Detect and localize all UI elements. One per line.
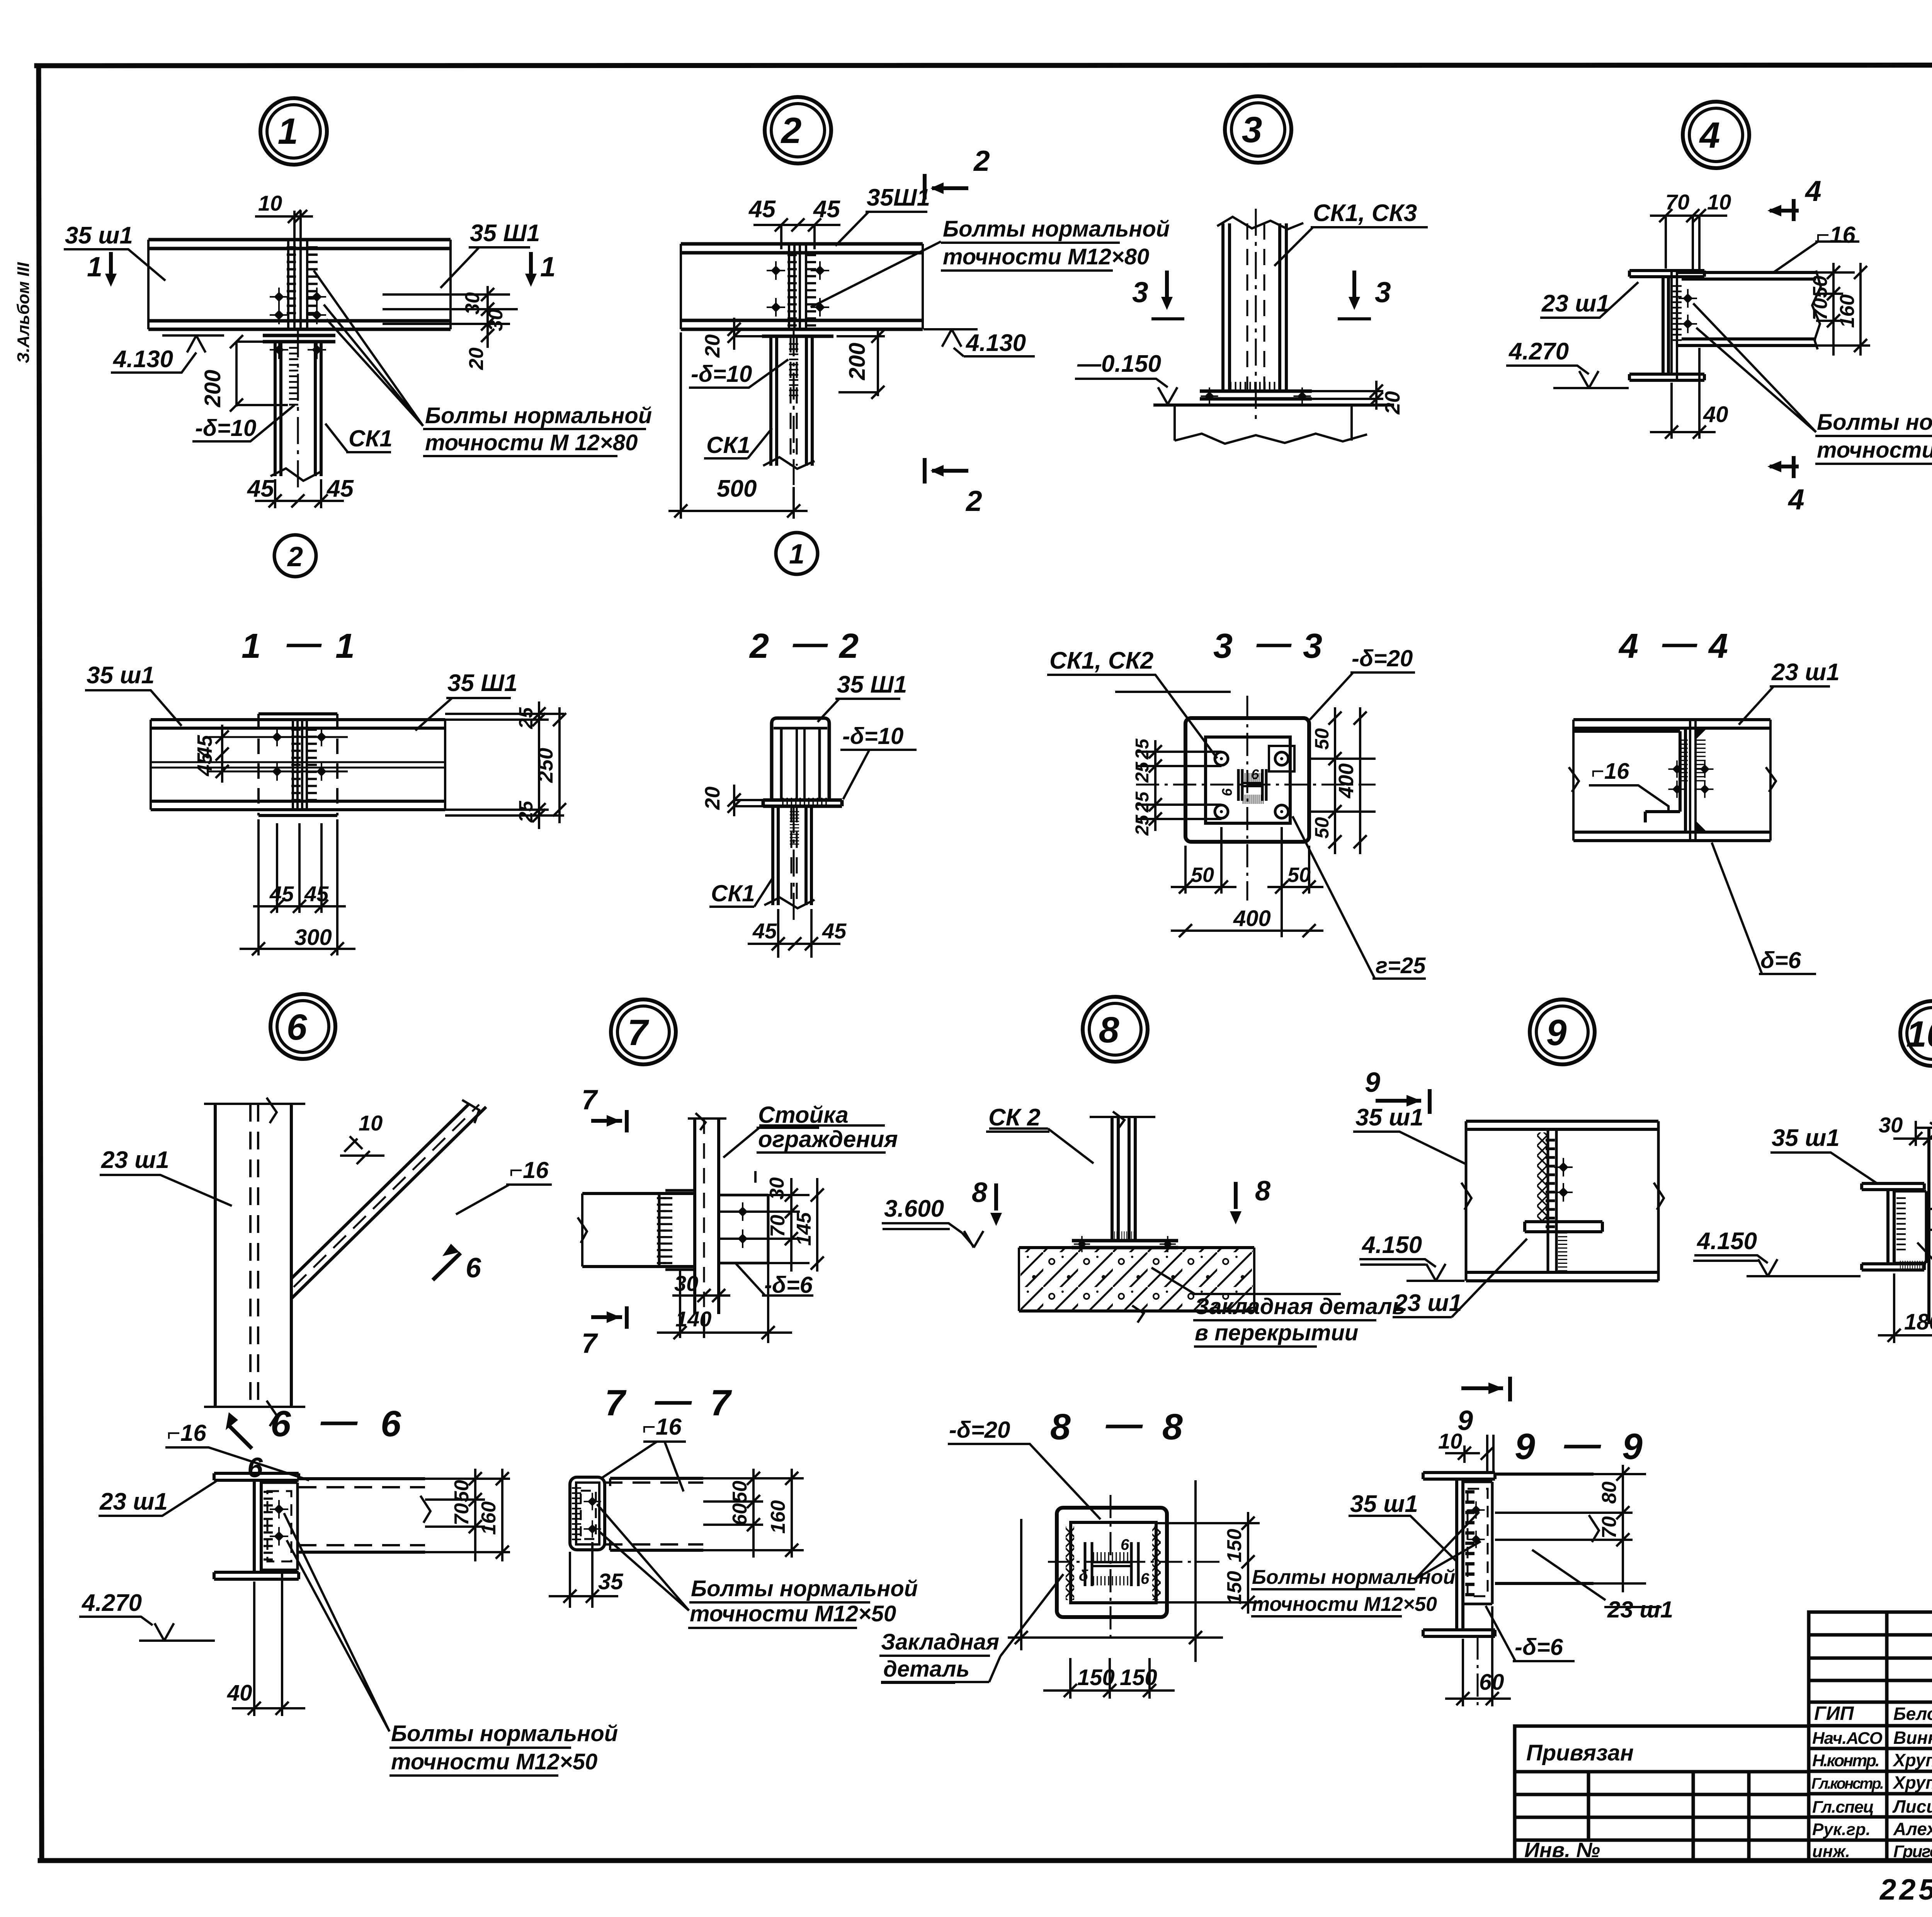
svg-text:6: 6 [1219,788,1235,796]
svg-text:инж.: инж. [1812,1842,1850,1861]
leader C16 top [165,1447,309,1480]
svg-text:ограждения: ограждения [758,1126,898,1152]
svg-text:Белоус: Белоус [1893,1704,1932,1724]
base plate [1200,391,1312,399]
brace end break [462,1100,479,1123]
svg-text:80: 80 [1598,1481,1621,1504]
leader 23sh1 [100,1175,232,1206]
privyazan table [1515,1726,1809,1861]
column bottom break [763,457,815,469]
svg-text:СК1: СК1 [706,432,750,458]
svg-text:6: 6 [1251,766,1259,782]
svg-text:Привязан: Привязан [1526,1740,1634,1765]
title block: signature table outline [1809,1612,1932,1861]
leader -b=10 [192,405,294,441]
right dims 150/150 [1156,1512,1260,1614]
section marks 2 [923,174,927,199]
svg-text:Лисичкин': Лисичкин' [1892,1796,1932,1817]
level 4.150 [1359,1259,1464,1281]
section mark 7 bottom [591,1315,622,1319]
signature table rows [1809,1635,1932,1840]
weld x columns [1066,1527,1074,1600]
weld combs splice [787,255,797,325]
label underlines [389,243,1932,1776]
svg-text:4: 4 [1804,175,1821,207]
detail 10 bubble [1900,1001,1932,1066]
underline zakladnaya detail 8 [1193,1320,1376,1347]
splice plate verticals [288,240,307,329]
svg-text:25: 25 [515,707,537,729]
slab hatch [1020,1249,1253,1309]
svg-text:г=25: г=25 [1376,953,1426,978]
leaders bolts [1693,303,1816,432]
bolt gauge lines [209,737,348,771]
leader 35Sh1 [835,212,927,246]
svg-text:ГИП: ГИП [1814,1702,1854,1724]
column SK1 shafts [275,342,321,476]
leader 23sh1 [1739,686,1830,725]
leader 35sh1 left [64,249,165,281]
leader stoyka [723,1125,885,1158]
svg-text:Стойка: Стойка [758,1102,849,1128]
right dims 80/70 [1495,1465,1646,1592]
svg-text:45: 45 [748,196,776,223]
svg-text:10: 10 [1707,190,1731,214]
underline bolts label node4 [1815,436,1932,464]
top dims 70/10 [1650,216,1727,271]
H anchors: flanges [1085,1542,1138,1586]
svg-text:-δ=6: -δ=6 [764,1272,813,1298]
svg-text:20: 20 [701,334,724,358]
underline bolts label 7-7 [688,1602,870,1628]
svg-text:400: 400 [1335,763,1358,798]
bottom ext line [1008,1480,1223,1662]
svg-text:3: 3 [1242,109,1262,150]
leader C16 [601,1442,686,1491]
leader -b=6 [1486,1606,1575,1661]
section mark 3 left [1165,271,1169,297]
svg-text:20: 20 [465,347,488,370]
svg-text:20: 20 [1381,391,1404,415]
bolts node 2 [767,261,785,280]
svg-text:⌐16: ⌐16 [642,1414,682,1440]
svg-text:6: 6 [466,1253,481,1284]
svg-text:200: 200 [845,343,870,381]
beam bottom flange [681,320,923,329]
bottom dims [1171,827,1323,937]
leader SK1 [709,877,774,907]
svg-text:25: 25 [1132,814,1153,836]
svg-text:20: 20 [701,787,724,810]
beam 35Sh1 end view box [772,718,829,800]
svg-text:500: 500 [717,475,757,502]
I section: top flange [214,1473,299,1480]
right dims 25/250/25 [445,701,564,829]
dim 40 [232,1572,305,1716]
svg-text:Закладная: Закладная [881,1629,999,1655]
svg-text:70: 70 [1665,190,1689,214]
leaders bolts [597,1504,689,1611]
svg-text:деталь: деталь [883,1657,969,1682]
svg-text:50: 50 [451,1480,473,1502]
leader -b=6 [736,1264,813,1296]
bottom dims 150/150 [1043,1658,1175,1699]
column web [1663,277,1668,374]
gusset plate verticals [1672,271,1677,380]
svg-text:1: 1 [540,252,556,283]
svg-text:30: 30 [766,1177,788,1200]
diagonal brace C16 [291,1105,486,1299]
detail 8 bubble [1083,997,1148,1062]
svg-text:250: 250 [534,748,557,783]
svg-text:10: 10 [1906,1014,1932,1055]
svg-text:35 ш1: 35 ш1 [87,662,155,689]
svg-text:7: 7 [582,1084,598,1115]
svg-text:60: 60 [729,1503,751,1525]
embed plate outer [1057,1508,1167,1617]
svg-text:180: 180 [1904,1309,1932,1335]
bent channel box [570,1477,605,1550]
leader 35sh1 right [440,247,530,288]
svg-text:25: 25 [515,800,537,823]
centerlines [1136,784,1376,786]
svg-text:35: 35 [598,1569,623,1594]
svg-text:10: 10 [258,191,282,215]
splice stub above beam [294,211,301,240]
svg-text:160: 160 [478,1502,500,1535]
svg-text:9: 9 [1546,1012,1567,1053]
svg-text:25: 25 [1132,761,1153,783]
svg-text:Рук.гр.: Рук.гр. [1812,1820,1871,1839]
bracket channel on post [659,1190,695,1270]
leader -b=20 [948,1444,1100,1519]
svg-text:1: 1 [241,627,261,666]
splice verticals [789,244,806,329]
column top break [1217,217,1303,229]
svg-text:45: 45 [193,752,216,776]
svg-text:Болты нормальной: Болты нормальной [691,1576,918,1601]
leader SK1 [704,428,772,458]
guard post [695,1119,719,1314]
leader C16 [1589,785,1668,811]
beam right [1495,1474,1594,1583]
detail 1 lower bubble [274,535,316,577]
base plate [1072,1241,1178,1248]
svg-text:9: 9 [1515,1426,1535,1467]
dim 20 right [1312,381,1383,410]
section mark 7 top [591,1119,622,1123]
svg-text:35 Ш1: 35 Ш1 [837,671,907,698]
svg-text:2: 2 [749,627,769,666]
stamp texts [1524,1634,1932,1914]
sheet frame left [39,66,42,1861]
svg-text:4.150: 4.150 [1361,1232,1422,1258]
svg-text:8: 8 [1050,1406,1071,1447]
svg-text:25: 25 [1132,738,1153,760]
dim 40 [1650,348,1716,439]
leaders bolts from left text [1415,1512,1481,1579]
svg-text:7: 7 [710,1382,732,1423]
dim 200 right [837,329,885,396]
column axis [297,330,299,488]
leader -b=10 [689,359,788,388]
sheet frame top [37,65,1932,66]
web lines [151,762,445,768]
column 23Sh1 verticals [215,1104,291,1407]
svg-text:160: 160 [1836,295,1859,328]
svg-text:Инв. №: Инв. № [1524,1839,1600,1862]
ground line [1153,403,1394,407]
level -0.150 [1075,379,1177,404]
leader C16 [1773,242,1859,273]
svg-text:50: 50 [1311,728,1333,750]
svg-text:Хрупало: Хрупало [1892,1772,1932,1793]
column bottom flange [1629,374,1704,380]
leader zakladnaya [881,1574,1063,1682]
beam 35Sh1 top flange [148,240,451,249]
svg-text:50: 50 [1191,863,1214,887]
detail 7 bubble [611,999,676,1064]
underline levels [883,816,1932,1265]
dim 20 left [734,318,767,350]
leader 35Sh1 [818,699,900,722]
right dim chain 30/30/20 [383,286,518,348]
concrete slab [1019,1248,1254,1311]
svg-text:7: 7 [605,1382,627,1423]
svg-text:⌐16: ⌐16 [509,1157,549,1183]
dim 180 [1878,1273,1932,1343]
cap plate [763,800,842,806]
top plate inner [1206,737,1290,823]
bottom dim 45/45 [255,479,344,508]
svg-text:45: 45 [304,882,329,906]
svg-text:300: 300 [294,925,332,950]
dim 10 above [255,215,313,218]
leaders bolts [284,1513,389,1731]
column web weld comb [789,344,798,395]
leaders bolts [811,242,941,307]
svg-text:6: 6 [287,1007,308,1048]
svg-text:в перекрытии: в перекрытии [1195,1320,1358,1345]
svg-text:2: 2 [973,145,990,177]
svg-text:—: — [286,624,322,662]
svg-text:35 Ш1: 35 Ш1 [470,220,540,247]
svg-text:-δ=20: -δ=20 [1352,645,1413,671]
detail 1 bubble [260,98,327,165]
leader -b=10 [840,750,917,799]
section mark 9 top [1376,1099,1421,1103]
dim 300 [240,819,355,955]
svg-text:—: — [1662,624,1697,662]
svg-text:Нач.АСО: Нач.АСО [1812,1729,1883,1748]
svg-text:⌐16: ⌐16 [1816,222,1855,248]
channel beam going right [299,1479,425,1552]
column cap plate [263,335,335,342]
svg-text:8: 8 [1162,1406,1183,1447]
I section [1423,1473,1495,1479]
level 4.150 [1694,1255,1861,1276]
leader 23sh1 [1393,1239,1527,1317]
svg-text:4: 4 [1708,627,1728,666]
section mark 1 left [109,252,113,274]
svg-text:-δ=10: -δ=10 [691,361,752,387]
svg-text:60: 60 [1479,1670,1504,1695]
svg-text:25: 25 [1132,791,1153,813]
leader 23sh1 [99,1481,216,1516]
column 23Sh1 top flange (plan) [1629,271,1704,277]
svg-text:СК1: СК1 [711,880,755,906]
dim 20 [734,785,768,816]
svg-text:40: 40 [227,1680,252,1706]
svg-text:45: 45 [822,919,847,943]
right dims 50/70 + 160 [1816,263,1870,356]
svg-text:6: 6 [1141,1570,1150,1587]
leader -b=6 [1917,1243,1932,1298]
svg-text:Гл.констр.: Гл.констр. [1811,1775,1884,1792]
centerlines [1110,1495,1112,1639]
bottom dim 45/45 [748,909,840,958]
stub plate above [1487,1435,1493,1473]
dims right 30/70/145 [719,1171,817,1272]
svg-text:3.600: 3.600 [884,1195,944,1222]
detail 2 lower bubble [776,533,818,574]
svg-text:Винклер: Винклер [1893,1728,1932,1748]
section marks 4 [1792,199,1796,221]
bolts 1-1 [268,728,286,746]
weld comb left of splice [287,247,296,320]
svg-text:-δ=10: -δ=10 [842,723,903,749]
bracket plate right of post [719,1195,768,1263]
svg-text:—: — [1256,624,1292,662]
left rot dims 45/45 [221,725,223,783]
bolt box top right [1269,746,1294,771]
dim 10 brace [340,1136,384,1156]
underline SK2 [986,1130,1049,1133]
leader SK1,SK3 [1274,227,1428,266]
svg-text:8: 8 [1099,1010,1119,1050]
svg-text:точности М12×50: точности М12×50 [1817,438,1932,463]
svg-text:150: 150 [1077,1665,1115,1690]
svg-text:150: 150 [1223,1571,1246,1605]
base plate outer [1185,718,1309,842]
svg-text:—: — [1105,1403,1143,1444]
svg-text:Болты нормальной: Болты нормальной [1252,1566,1455,1588]
beam 35Sh1 outline [1466,1121,1658,1281]
beam right break [1812,271,1821,349]
level 4.270 [1506,366,1629,388]
underline bolts label 6-6 [389,1748,571,1776]
svg-text:Болты нормальной: Болты нормальной [425,403,652,428]
right dims 50/400/50 [1309,707,1376,854]
svg-text:9: 9 [1365,1067,1380,1098]
svg-text:2: 2 [287,541,303,572]
svg-text:35 ш1: 35 ш1 [1772,1125,1840,1151]
level 4.270 [79,1617,215,1641]
beam ends [681,244,923,329]
svg-text:3: 3 [1303,627,1322,666]
leader 35sh1 9-9 [1349,1516,1457,1561]
level mark 4.130 [111,335,224,373]
guard post [1929,1128,1932,1324]
splice plate [259,714,337,815]
svg-text:6: 6 [1121,1536,1129,1553]
flange inner faces [774,728,827,800]
top dim 30 [1893,1121,1932,1146]
svg-text:СК1, СК2: СК1, СК2 [1049,647,1153,674]
leader 35sh1 [1770,1153,1877,1183]
dim 45/45 above [753,225,840,249]
svg-text:200: 200 [200,370,225,408]
section mark 3 right [1352,271,1356,297]
svg-text:СК 2: СК 2 [988,1104,1041,1131]
weld combs at splice [1672,286,1682,340]
svg-text:точности М12×50: точности М12×50 [391,1749,597,1774]
section mark 1 right [529,252,533,274]
leader b=6 [1712,843,1816,974]
svg-text:⌐16: ⌐16 [1591,759,1629,784]
right dims 50/70 160 [425,1469,510,1561]
svg-text:точности М 12×80: точности М 12×80 [425,430,638,455]
foundation [1175,405,1367,444]
crosshatch on splice [1537,1132,1548,1221]
svg-text:—: — [320,1400,358,1441]
svg-text:30: 30 [485,309,507,331]
svg-text:10: 10 [1438,1429,1462,1453]
svg-text:1: 1 [278,111,298,152]
web [254,1480,261,1572]
cap plate [762,329,833,336]
detail 3 bubble [1225,96,1291,163]
leader C16 [456,1185,552,1214]
svg-text:СК1: СК1 [349,426,393,451]
dim 35 [549,1542,618,1608]
column below [773,806,811,905]
svg-text:точности М12×80: точности М12×80 [943,244,1149,269]
column SK1,SK3 shafts [1223,223,1286,391]
web [797,728,804,800]
dim 500 [668,332,808,519]
svg-text:23 ш1: 23 ш1 [99,1488,168,1515]
svg-text:140: 140 [675,1307,711,1331]
bottom dim 45/45 [253,823,346,913]
svg-text:45: 45 [752,919,777,943]
svg-text:2: 2 [781,110,802,151]
dims right 30/70/145 [1926,1173,1932,1275]
svg-text:8: 8 [972,1177,987,1208]
svg-text:70: 70 [1809,298,1832,320]
svg-text:⌐16: ⌐16 [167,1420,206,1446]
svg-text:Алехова: Алехова [1893,1819,1932,1839]
svg-text:Н.контр.: Н.контр. [1812,1751,1880,1770]
svg-text:35 ш1: 35 ш1 [1350,1491,1418,1517]
svg-text:50: 50 [1311,817,1333,839]
svg-text:45: 45 [813,196,840,223]
svg-text:30: 30 [674,1271,698,1296]
svg-text:4.270: 4.270 [1508,338,1569,365]
beam end lines [148,240,451,329]
weld comb right of splice [308,247,318,320]
svg-text:Хрупало: Хрупало [1892,1750,1932,1770]
svg-text:160: 160 [767,1500,789,1534]
svg-text:23 ш1: 23 ш1 [1607,1597,1673,1622]
dim 10 top [1445,1445,1480,1463]
svg-text:23 ш1: 23 ш1 [1541,290,1610,317]
svg-text:точности М12×50: точности М12×50 [1252,1593,1437,1616]
column bottom break [270,468,321,481]
svg-text:50: 50 [1287,863,1311,887]
svg-text:35 ш1: 35 ш1 [1355,1104,1423,1131]
anchor bolts [1201,388,1218,405]
